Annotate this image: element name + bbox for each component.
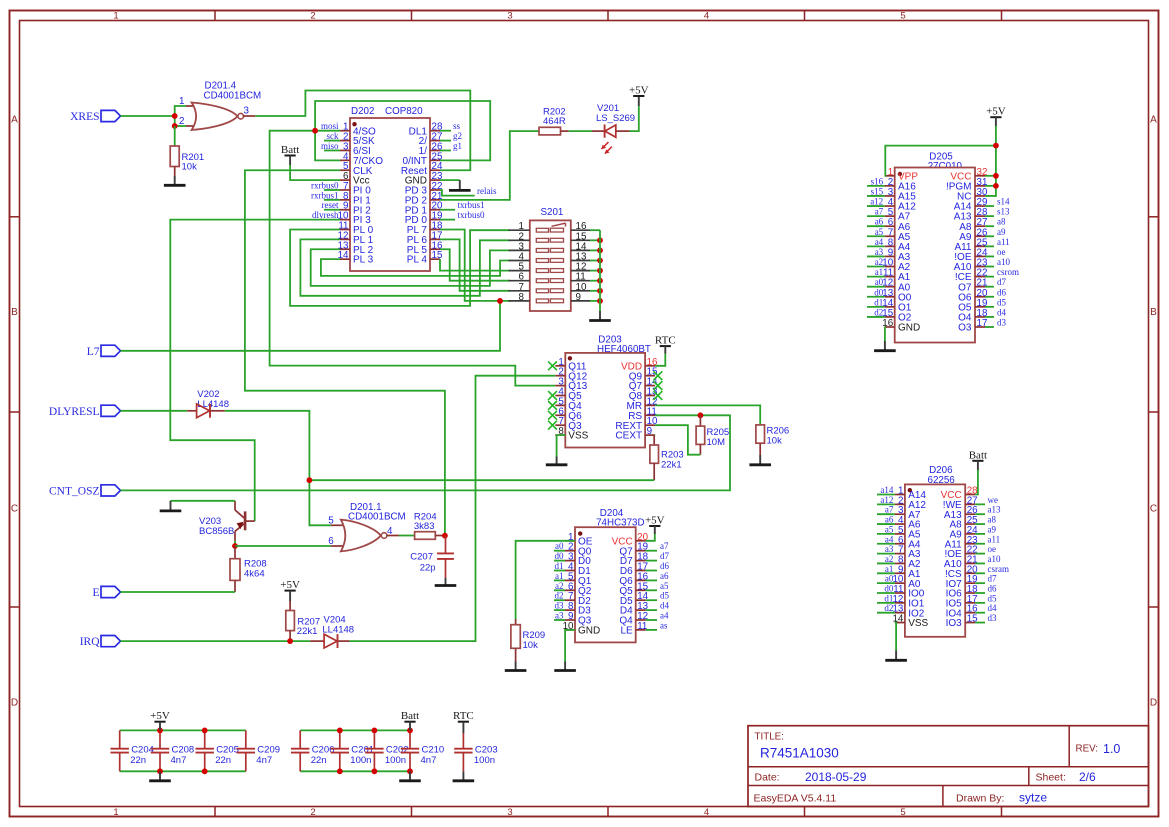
svg-text:+5V: +5V [280,579,300,591]
svg-text:5: 5 [328,515,334,526]
svg-text:Batt: Batt [281,144,299,156]
svg-text:a3: a3 [555,611,564,621]
svg-text:a5: a5 [875,227,884,237]
svg-text:a4: a4 [660,611,669,621]
wire XRES to gate inputs [121,115,175,117]
wire PL1 to S201 row2 [300,239,510,295]
svg-text:14: 14 [892,614,903,625]
svg-text:10k: 10k [523,640,539,651]
battery flag Batt at D202 Vcc [285,155,296,157]
D203 pins right 16-9 [645,365,655,367]
svg-text:3: 3 [244,106,250,117]
junction dot emitter node [234,541,236,546]
wire LED to +5V [630,106,639,131]
svg-text:4n7: 4n7 [421,755,437,766]
svg-text:miso: miso [321,141,339,151]
resistor R209 10k [515,619,517,625]
ground at D204 GND [565,630,575,662]
svg-text:a5: a5 [885,524,894,534]
svg-text:10k: 10k [182,162,198,173]
svg-text:txrbus0: txrbus0 [458,210,486,220]
svg-text:15: 15 [432,250,443,261]
D202 pins left 1-14 [340,130,350,132]
power flag +5V (D205) [990,116,1001,118]
capacitor C204 22n [119,730,121,748]
svg-text:a14: a14 [880,485,893,495]
svg-text:csram: csram [988,564,1010,574]
svg-text:Batt: Batt [969,449,987,461]
wire PL3 to S201 row4 [321,259,510,276]
port L7 [101,345,121,356]
svg-text:LL4148: LL4148 [197,399,229,410]
svg-text:a0: a0 [885,574,894,584]
svg-text:1: 1 [179,96,184,107]
frame column ticks top/bottom [214,11,216,21]
resistor R205 10M [698,412,704,418]
svg-text:a9: a9 [997,227,1006,237]
svg-text:10k: 10k [767,435,783,446]
resistor R204 3k83 [387,535,399,537]
svg-text:Batt: Batt [401,710,419,722]
ground at D206 VSS [895,623,896,651]
svg-text:BC856B: BC856B [199,526,234,537]
D202 short stub wires [324,140,340,142]
svg-text:d5: d5 [997,297,1007,307]
svg-text:3k83: 3k83 [414,521,435,532]
junction dot mosi [312,128,318,134]
svg-text:a12: a12 [870,197,883,207]
svg-text:g1: g1 [453,141,462,151]
svg-text:CD4001BCM: CD4001BCM [204,91,262,102]
svg-text:COP820: COP820 [385,106,423,117]
svg-text:+5V: +5V [150,710,170,722]
svg-text:E: E [92,587,99,599]
wire IRQ to D203 Q12 [350,376,556,641]
svg-text:s13: s13 [997,207,1010,217]
wire CLK net to R204/C207 node [245,170,445,535]
svg-text:d2: d2 [874,307,883,317]
wire IRQ [121,640,311,642]
svg-text:d2: d2 [884,603,893,613]
S201 right common wires to ground [590,229,600,231]
wire PL5 to S201 row6 [440,249,510,280]
svg-text:8: 8 [519,292,525,303]
svg-text:d3: d3 [997,318,1007,328]
title block [748,726,1149,807]
svg-text:22p: 22p [420,562,436,573]
svg-text:rxrbus0: rxrbus0 [311,180,339,190]
power flag +5V (V201) [633,95,644,97]
port XRES [101,110,121,121]
svg-text:d4: d4 [997,307,1007,317]
battery flag Batt (D206) [972,460,983,462]
svg-text:a10: a10 [988,554,1001,564]
svg-text:1.0: 1.0 [1103,742,1120,756]
ground below R201 [174,176,176,185]
svg-text:5: 5 [900,11,905,22]
svg-text:a11: a11 [988,534,1001,544]
ground at D205 GND [884,327,886,341]
ground below cap bank 2 [409,771,411,781]
port IRQ [101,636,121,647]
frame row ticks left/right [10,216,20,218]
ground at D202 pin23 GND [440,179,460,181]
resistor R207 22k1 [289,601,291,611]
svg-text:Sheet:: Sheet: [1036,772,1066,784]
D206 pins left 1-14 [895,494,905,496]
svg-text:sck: sck [327,131,339,141]
wire PL0 to S201 row1 [290,230,510,306]
svg-text:a6: a6 [885,515,894,525]
svg-text:a6: a6 [660,571,669,581]
svg-text:B: B [11,307,18,318]
D203 pins left 1-8 [555,365,565,367]
svg-text:a9: a9 [988,524,997,534]
svg-text:+5V: +5V [986,106,1006,118]
svg-text:oe: oe [997,247,1006,257]
RTC flag at D203 VDD [660,345,671,347]
svg-text:RTC: RTC [655,335,676,347]
svg-text:a12: a12 [880,495,893,505]
svg-text:ss: ss [453,121,461,131]
svg-text:d4: d4 [988,603,998,613]
svg-text:s14: s14 [997,197,1010,207]
svg-text:IO3: IO3 [946,618,963,629]
svg-text:d4: d4 [660,601,670,611]
svg-text:a7: a7 [885,505,894,515]
svg-text:a5: a5 [660,581,669,591]
svg-text:d7: d7 [997,277,1007,287]
wire emitter node to gate input6 [235,545,331,547]
wire relais net pin21 to R202 [440,131,539,200]
capacitor C210 4n7 [409,730,411,748]
D205 pins right 32-17 [975,175,985,177]
wire relais stub pin22 [440,190,475,196]
svg-text:O3: O3 [958,323,972,334]
svg-text:D: D [11,698,18,709]
svg-text:d6: d6 [660,561,670,571]
svg-text:a4: a4 [885,534,894,544]
svg-text:B: B [1150,307,1157,318]
svg-text:2: 2 [179,116,184,127]
capacitor bank Batt : C206 C201 C202 C210 [300,729,410,731]
capacitor C203 100n with RTC flag [458,721,469,723]
LED arrows [602,142,609,149]
svg-text:C208: C208 [172,744,195,755]
D204 pins left 1-10 [565,540,575,542]
svg-text:2: 2 [310,11,315,22]
ground at D203 VSS [557,435,566,456]
svg-text:a0: a0 [875,277,884,287]
svg-text:LL4148: LL4148 [322,624,354,635]
svg-text:relais: relais [477,186,497,196]
svg-text:TITLE:: TITLE: [755,732,784,743]
svg-text:100n: 100n [474,755,495,766]
svg-text:rxrbus1: rxrbus1 [311,190,339,200]
svg-text:d3: d3 [988,613,998,623]
svg-text:2: 2 [310,807,315,818]
svg-text:a3: a3 [885,544,894,554]
svg-text:d6: d6 [997,287,1007,297]
svg-text:d2: d2 [555,591,564,601]
svg-text:100n: 100n [350,755,371,766]
wire +5V to D205 VPP/VCC/PGM/NC [985,126,996,196]
svg-text:d1: d1 [884,593,893,603]
svg-text:4n7: 4n7 [171,755,187,766]
capacitor C201 100n [339,730,341,748]
resistor R208 4k64 [234,546,236,559]
wire PL7 to S201 row8 [440,230,510,301]
port E [101,586,121,597]
svg-text:VSS: VSS [568,431,588,442]
svg-text:a4: a4 [875,237,884,247]
svg-text:s16: s16 [871,176,884,186]
capacitor C205 22n [204,730,206,748]
svg-text:C: C [1150,504,1157,515]
ground at V203 collector [171,500,236,502]
svg-text:A: A [11,115,18,126]
svg-text:d1: d1 [555,561,564,571]
svg-text:a7: a7 [660,541,669,551]
svg-text:reset: reset [322,200,339,210]
svg-text:mosi: mosi [321,121,339,131]
wire DLYRESL net [121,410,188,412]
svg-text:1: 1 [113,807,118,818]
wire PL2 to S201 row3 [311,249,510,286]
svg-text:d5: d5 [988,593,998,603]
svg-text:a2: a2 [555,581,564,591]
svg-text:REV:: REV: [1076,744,1099,755]
capacitor C206 22n [299,730,301,748]
svg-text:a0: a0 [555,541,564,551]
wire PL4 to S201 row5 [440,259,510,270]
svg-text:4n7: 4n7 [256,755,272,766]
svg-text:RTC: RTC [453,710,474,722]
svg-text:3: 3 [507,11,512,22]
svg-text:S201: S201 [541,207,564,218]
S201 switch elements [536,228,548,232]
svg-text:10M: 10M [707,437,726,448]
svg-text:LE: LE [620,626,633,637]
svg-text:9: 9 [576,292,581,303]
wire REXT to R205 bottom [655,425,700,455]
svg-text:a2: a2 [885,554,894,564]
svg-text:d0: d0 [884,584,894,594]
svg-text:C203: C203 [475,744,498,755]
svg-text:d5: d5 [660,591,670,601]
wire CNT_OSZ to D203 RS [121,415,731,490]
svg-text:VSS: VSS [908,618,928,629]
resistor R201 10k [174,126,176,146]
svg-text:s15: s15 [871,186,884,196]
svg-text:C204: C204 [131,744,154,755]
svg-text:22k1: 22k1 [297,626,318,637]
svg-text:a1: a1 [885,564,894,574]
svg-text:C210: C210 [422,744,445,755]
svg-text:C205: C205 [216,744,239,755]
svg-text:C207: C207 [410,552,433,563]
capacitor C202 100n [373,730,375,748]
svg-text:as: as [660,620,668,630]
svg-text:EasyEDA V5.4.11: EasyEDA V5.4.11 [754,793,837,805]
svg-text:d7: d7 [660,551,670,561]
ground below cap bank 1 [159,771,161,781]
svg-text:sytze: sytze [1019,791,1047,805]
svg-text:a8: a8 [988,515,997,525]
svg-text:PL 3: PL 3 [353,255,374,266]
svg-text:4: 4 [704,807,709,818]
svg-text:a10: a10 [997,257,1010,267]
svg-text:XRES: XRES [70,111,99,123]
svg-text:oe: oe [988,544,997,554]
wire DLYRESL branch to gate input5 [309,480,331,525]
svg-text:R7451A1030: R7451A1030 [760,746,839,761]
svg-text:C206: C206 [312,744,335,755]
capacitor C209 4n7 [245,730,247,748]
svg-text:we: we [988,495,999,505]
junction dot R204/C207/CLK node [442,533,448,539]
svg-text:d7: d7 [988,574,998,584]
battery flag Batt (cap bank) [404,721,415,723]
svg-text:d0: d0 [555,551,565,561]
svg-text:PL 4: PL 4 [407,255,428,266]
capacitor C208 4n7 [159,730,161,748]
D206 pins right 28-15 [965,494,975,496]
svg-text:d6: d6 [988,584,998,594]
svg-text:a2: a2 [875,257,884,267]
svg-text:4k64: 4k64 [244,568,265,579]
svg-text:a3: a3 [875,247,884,257]
port DLYRESL [101,405,121,416]
svg-text:A: A [1150,115,1157,126]
svg-text:6: 6 [328,536,334,547]
svg-text:Date:: Date: [755,772,780,784]
svg-text:a6: a6 [875,217,884,227]
svg-text:CD4001BCM: CD4001BCM [348,512,406,523]
svg-text:L7: L7 [87,346,100,358]
D203 no-connect X marks [548,361,557,370]
svg-text:a1: a1 [555,571,564,581]
svg-text:d1: d1 [874,297,883,307]
svg-text:22n: 22n [130,755,146,766]
svg-text:a11: a11 [997,237,1010,247]
svg-text:D: D [1150,698,1157,709]
svg-text:CNT_OSZ: CNT_OSZ [49,485,99,497]
svg-text:C201: C201 [351,744,374,755]
wire dlyresh net to V203 base [170,220,340,521]
svg-text:+5V: +5V [629,85,649,97]
svg-text:22n: 22n [215,755,231,766]
wire E port to R208 [121,591,236,593]
svg-text:csrom: csrom [997,267,1019,277]
resistor R206 10k + ground [655,405,760,425]
svg-text:d3: d3 [555,601,565,611]
D205 pins left 1-16 [885,175,895,177]
port CNT_OSZ [101,485,121,496]
junction dots XRES [172,113,178,119]
svg-text:a13: a13 [988,505,1001,515]
resistor R203 22k1 at CEXT [653,434,656,436]
capacitor bank +5V : C204 C208 C205 C209 [120,729,246,731]
svg-text:GND: GND [578,626,600,637]
svg-text:LS_S269: LS_S269 [596,113,635,124]
svg-text:a8: a8 [997,217,1006,227]
svg-text:5: 5 [900,807,905,818]
svg-text:4: 4 [704,11,709,22]
S201 pin lines and numbers [509,229,530,231]
wire txrbus stubs [440,209,455,211]
wire gate D201.4 output to D202 pin24 Reset [243,115,255,117]
svg-text:txrbus1: txrbus1 [458,200,485,210]
svg-text:3: 3 [507,807,512,818]
svg-text:g2: g2 [453,131,462,141]
junction dot S201 row8 [497,298,503,304]
power flag +5V (D204 VCC) [649,525,660,527]
svg-text:1: 1 [113,11,118,22]
svg-text:C: C [11,504,18,515]
D202 pins right 28-15 [430,130,440,132]
svg-text:C202: C202 [386,744,409,755]
svg-text:9: 9 [647,426,652,437]
D204 pins right 20-11 [636,540,646,542]
svg-text:22k1: 22k1 [661,460,682,471]
wire mosi net: pin1 to pin25 bracket [315,130,340,132]
svg-text:2018-05-29: 2018-05-29 [805,770,867,784]
svg-text:464R: 464R [543,116,566,127]
svg-text:GND: GND [898,323,920,334]
svg-text:d0: d0 [874,287,884,297]
wire mosi branch to D203 Q13 [270,131,556,386]
svg-text:D202: D202 [351,106,374,117]
svg-text:C209: C209 [257,744,280,755]
svg-text:IRQ: IRQ [80,636,101,648]
svg-text:DLYRESL: DLYRESL [49,406,100,418]
svg-text:2/6: 2/6 [1079,770,1096,784]
wire mosi branch to pin4 [315,131,340,161]
power flag +5V (cap bank) [154,721,165,723]
wire L7 to S201 row8 [121,301,501,351]
svg-text:CEXT: CEXT [615,431,642,442]
svg-text:100n: 100n [385,755,406,766]
svg-text:+5V: +5V [645,515,665,527]
svg-text:a7: a7 [875,207,884,217]
power flag +5V (R207) [285,590,296,592]
ground below S201 [599,311,601,321]
svg-text:22n: 22n [311,755,327,766]
wire D204 OE to R209 [516,541,575,619]
wire PL6 to S201 row7 [440,239,510,290]
IC D202 COP820 body [350,118,430,271]
svg-text:a1: a1 [875,267,884,277]
svg-text:Drawn By:: Drawn By: [956,793,1004,805]
svg-text:dlyresh: dlyresh [312,210,339,220]
